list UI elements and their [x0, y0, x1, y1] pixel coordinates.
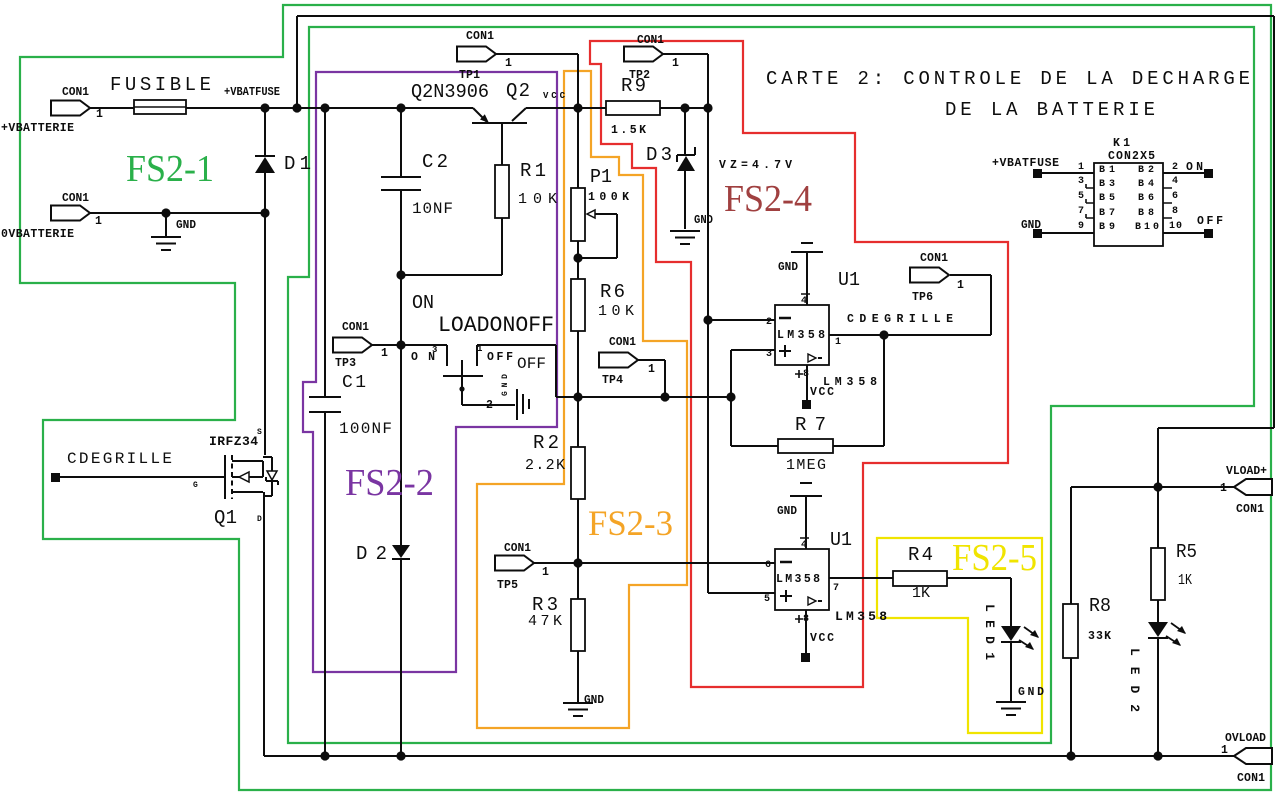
svg-text:1: 1 [648, 363, 655, 376]
svg-text:CON1: CON1 [920, 252, 948, 265]
svg-text:GND: GND [584, 694, 604, 707]
svg-text:CON1: CON1 [342, 321, 369, 334]
svg-text:CON1: CON1 [466, 30, 494, 43]
svg-text:R4: R4 [908, 544, 933, 566]
svg-text:R6: R6 [600, 281, 625, 303]
svg-text:Q2: Q2 [506, 80, 530, 102]
svg-text:33K: 33K [1088, 630, 1111, 643]
svg-text:LM358: LM358 [776, 573, 820, 586]
svg-text:TP4: TP4 [602, 374, 623, 387]
svg-text:2.2K: 2.2K [525, 457, 565, 474]
svg-text:1: 1 [477, 344, 483, 354]
svg-text:D3: D3 [646, 144, 672, 166]
svg-text:GND: GND [777, 505, 797, 518]
svg-text:1: 1 [1078, 162, 1084, 173]
svg-text:D2: D2 [356, 543, 387, 565]
svg-text:GND: GND [778, 261, 798, 274]
svg-text:K1: K1 [1113, 137, 1130, 150]
svg-text:1: 1 [96, 108, 103, 121]
svg-text:CON1: CON1 [504, 542, 531, 555]
svg-text:1.5K: 1.5K [611, 124, 646, 137]
svg-text:U1: U1 [830, 529, 852, 551]
svg-text:FS2-4: FS2-4 [724, 178, 812, 220]
svg-text:ON: ON [412, 292, 434, 314]
svg-text:DE LA BATTERIE: DE LA BATTERIE [945, 99, 1155, 121]
svg-text:1: 1 [1221, 744, 1228, 757]
svg-text:CON1: CON1 [62, 86, 89, 99]
svg-text:7: 7 [1078, 206, 1084, 217]
svg-text:LED2: LED2 [1127, 648, 1142, 712]
svg-text:5: 5 [764, 594, 770, 605]
svg-text:10: 10 [1169, 221, 1182, 232]
svg-text:FUSIBLE: FUSIBLE [110, 74, 211, 96]
svg-text:G: G [193, 481, 198, 490]
svg-text:4: 4 [801, 296, 807, 307]
svg-text:8: 8 [803, 614, 809, 625]
svg-text:CON1: CON1 [609, 336, 636, 349]
svg-text:GND: GND [1021, 219, 1041, 232]
svg-text:FS2-3: FS2-3 [588, 503, 673, 543]
svg-text:1: 1 [672, 57, 679, 70]
svg-text:100NF: 100NF [339, 420, 392, 438]
svg-text:TP6: TP6 [912, 291, 933, 304]
svg-text:CON1: CON1 [62, 192, 89, 205]
svg-text:1MEG: 1MEG [786, 457, 826, 474]
svg-text:Q1: Q1 [214, 507, 237, 529]
svg-text:GND: GND [176, 219, 196, 232]
svg-text:CON1: CON1 [1236, 503, 1264, 516]
svg-text:+VBATFUSE: +VBATFUSE [224, 86, 280, 99]
svg-text:GND: GND [1018, 686, 1044, 699]
svg-text:2: 2 [1172, 162, 1178, 173]
svg-text:1: 1 [95, 215, 102, 228]
svg-text:VCC: VCC [543, 91, 566, 101]
svg-text:TP5: TP5 [497, 579, 518, 592]
svg-text:0VBATTERIE: 0VBATTERIE [1, 228, 74, 241]
svg-text:9: 9 [1078, 221, 1084, 232]
svg-text:LED1: LED1 [982, 604, 997, 660]
svg-text:1: 1 [1220, 482, 1227, 495]
svg-text:1: 1 [835, 337, 841, 348]
svg-text:3: 3 [432, 345, 437, 355]
svg-text:GND: GND [501, 374, 510, 396]
svg-text:B10: B10 [1135, 222, 1159, 233]
svg-text:10NF: 10NF [412, 200, 453, 218]
svg-text:4: 4 [801, 540, 807, 551]
svg-text:FS2-5: FS2-5 [952, 537, 1037, 579]
svg-text:10K: 10K [518, 191, 557, 208]
svg-text:5: 5 [1078, 191, 1084, 202]
svg-text:GND: GND [694, 214, 713, 227]
svg-text:7: 7 [833, 583, 839, 594]
svg-text:R8: R8 [1089, 595, 1111, 617]
svg-text:D: D [257, 515, 262, 524]
svg-text:6: 6 [1172, 191, 1178, 202]
svg-text:VCC: VCC [810, 632, 834, 645]
svg-text:+VBATFUSE: +VBATFUSE [992, 157, 1059, 170]
svg-text:R7: R7 [795, 414, 826, 436]
svg-text:2: 2 [766, 317, 772, 328]
svg-text:OFF: OFF [487, 351, 513, 364]
svg-text:+VBATTERIE: +VBATTERIE [1, 122, 74, 135]
svg-text:Q2N3906: Q2N3906 [411, 81, 489, 103]
svg-text:4: 4 [1172, 176, 1178, 187]
svg-text:IRFZ34: IRFZ34 [209, 434, 258, 449]
svg-text:LOADONOFF: LOADONOFF [438, 313, 554, 338]
svg-text:CON1: CON1 [637, 34, 664, 47]
svg-text:R1: R1 [520, 160, 546, 182]
svg-text:6: 6 [765, 560, 771, 571]
svg-text:CON1: CON1 [1237, 772, 1265, 785]
svg-text:R2: R2 [533, 432, 559, 454]
svg-text:1: 1 [381, 347, 388, 360]
svg-text:R5: R5 [1176, 541, 1197, 563]
svg-text:3: 3 [766, 349, 772, 360]
svg-text:CDEGRILLE: CDEGRILLE [847, 313, 953, 326]
svg-text:1K: 1K [1178, 572, 1192, 589]
svg-text:CDEGRILLE: CDEGRILLE [67, 450, 172, 468]
svg-text:P1: P1 [590, 166, 612, 188]
svg-text:1: 1 [542, 566, 549, 579]
svg-text:TP3: TP3 [335, 357, 356, 370]
svg-text:VZ=4.7V: VZ=4.7V [719, 159, 792, 172]
svg-text:FS2-1: FS2-1 [126, 148, 214, 190]
svg-text:U1: U1 [838, 269, 860, 291]
svg-text:10K: 10K [598, 303, 634, 320]
svg-text:CON2X5: CON2X5 [1108, 150, 1155, 163]
svg-text:2: 2 [486, 399, 493, 412]
svg-text:CARTE 2: CONTROLE DE LA DECHAR: CARTE 2: CONTROLE DE LA DECHARGE [766, 68, 1250, 90]
svg-text:OVLOAD: OVLOAD [1225, 732, 1266, 745]
svg-text:D1: D1 [284, 153, 311, 175]
svg-text:8: 8 [803, 369, 809, 380]
svg-text:8: 8 [1172, 206, 1178, 217]
svg-text:VLOAD+: VLOAD+ [1226, 465, 1267, 478]
svg-text:47K: 47K [528, 613, 562, 630]
svg-text:FS2-2: FS2-2 [345, 462, 434, 504]
svg-text:1: 1 [505, 57, 512, 70]
svg-text:100K: 100K [588, 191, 629, 204]
svg-text:OFF: OFF [1197, 215, 1223, 228]
svg-text:LM358: LM358 [835, 609, 887, 624]
svg-text:C1: C1 [342, 373, 366, 393]
svg-text:3: 3 [1078, 176, 1084, 187]
svg-text:1: 1 [957, 279, 964, 292]
svg-text:C2: C2 [422, 151, 448, 173]
svg-text:1K: 1K [912, 585, 930, 602]
svg-text:OFF: OFF [517, 355, 546, 373]
